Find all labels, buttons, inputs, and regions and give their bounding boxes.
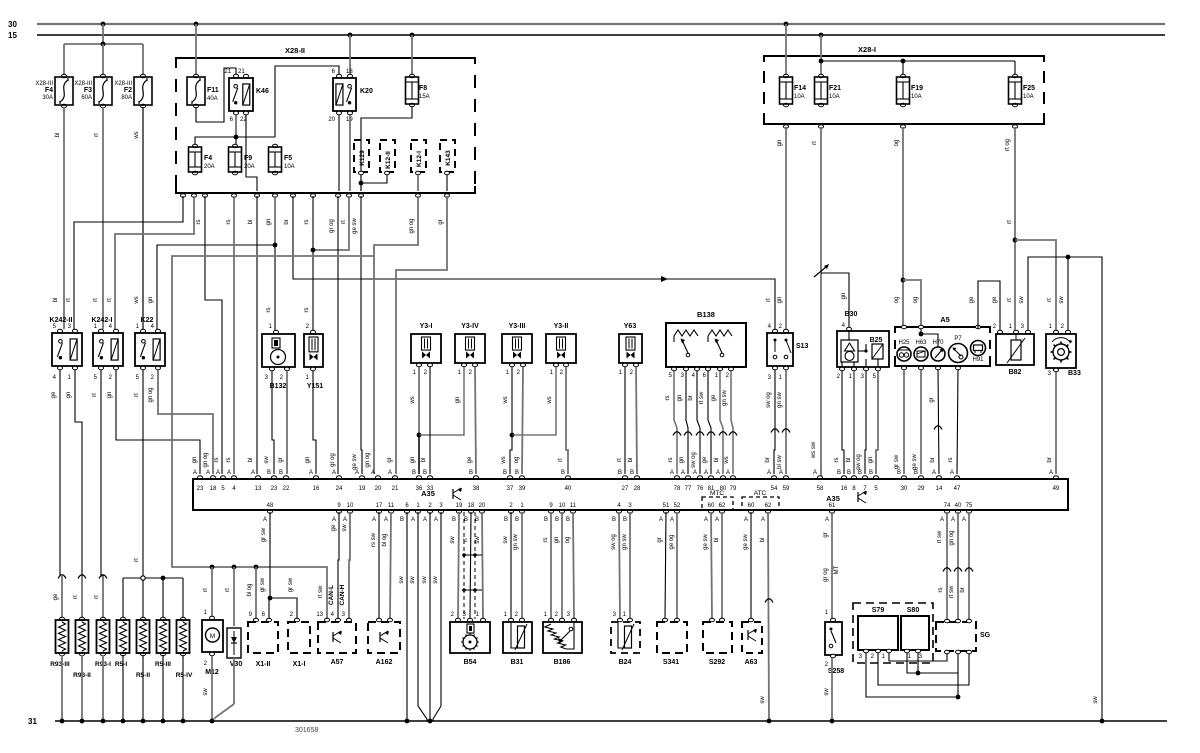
svg-text:37: 37 (507, 486, 514, 492)
svg-text:15A: 15A (419, 94, 430, 100)
svg-text:rs sw: rs sw (371, 532, 377, 547)
wire rt from X28-II terminal to K242-II pin3 (74, 196, 183, 329)
fuse F4 30A (X28-III) (62, 74, 67, 78)
wire P7 to A35 A47 (957, 370, 958, 474)
svg-text:F4: F4 (204, 155, 212, 162)
svg-text:sw: sw (342, 524, 348, 532)
svg-text:B: B (837, 470, 841, 476)
wire S13 pin3 to A35 A54 (774, 370, 775, 474)
svg-text:14: 14 (936, 486, 943, 492)
wire Y63 pin2 to A35 B28 (636, 367, 637, 474)
svg-text:81: 81 (708, 486, 715, 492)
svg-text:B: B (623, 517, 627, 523)
valve Y151 (311, 330, 316, 334)
svg-text:K12-II: K12-II (385, 151, 392, 169)
fuse F2 80A (X28-III) (141, 74, 146, 78)
svg-text:SG: SG (980, 632, 991, 639)
svg-text:sw og: sw og (611, 534, 617, 550)
wire gn X28-II terminal to K22 pin4 and B132 (274, 196, 276, 245)
svg-text:ge sw: ge sw (352, 218, 358, 234)
svg-text:A: A (411, 517, 415, 523)
svg-text:ge: ge (53, 593, 59, 600)
svg-text:gn sw: gn sw (513, 534, 519, 550)
svg-text:F8: F8 (419, 85, 427, 92)
fuse F3 60A (X28-III) (101, 74, 106, 78)
svg-text:A57: A57 (331, 659, 344, 666)
wire B82 pin2 to H91 (978, 281, 1000, 330)
wire sw B82 pin3 / B33 pin2 to ground rail (1028, 257, 1102, 721)
svg-text:A: A (216, 470, 220, 476)
svg-text:gn: gn (266, 219, 272, 226)
svg-text:18: 18 (210, 486, 217, 492)
svg-text:sw: sw (422, 576, 428, 584)
svg-text:78: 78 (674, 486, 681, 492)
svg-text:A5: A5 (940, 315, 950, 324)
svg-text:A: A (332, 517, 336, 523)
wire og F19 to A5 cluster (902, 127, 904, 327)
svg-text:sw og: sw og (856, 454, 862, 470)
svg-text:og: og (514, 457, 520, 464)
MTC dashed bracket (702, 497, 733, 510)
wire Y151 pin1 to A35 A16 (313, 371, 316, 474)
svg-text:B25: B25 (870, 337, 883, 344)
svg-text:B: B (858, 470, 862, 476)
wires A51 A52 to S341 (665, 512, 666, 619)
svg-text:br: br (1047, 457, 1053, 462)
sensor B54 (456, 618, 461, 622)
svg-text:A: A (767, 470, 771, 476)
svg-text:A: A (309, 470, 313, 476)
wire gn og K12-I terminal to A35 A20 (374, 196, 418, 474)
svg-text:30: 30 (8, 20, 17, 29)
svg-text:ATC: ATC (754, 490, 767, 497)
svg-text:36: 36 (416, 486, 423, 492)
svg-text:gn og: gn og (365, 452, 371, 467)
svg-text:49: 49 (1053, 486, 1060, 492)
wire A17 to A162 (378, 512, 380, 619)
svg-text:gn og: gn og (409, 218, 415, 233)
svg-text:A: A (761, 517, 765, 523)
svg-text:B30: B30 (845, 311, 858, 318)
speed sensor B33 (1054, 330, 1059, 334)
wire Y3-III pin1 / Y3-II pin1 to A35 B37 (511, 367, 513, 435)
svg-text:gr og: gr og (823, 568, 829, 582)
wire K22 pin5 to R5 resistor bank (142, 370, 144, 578)
wire A48 to X1-II pin6 and X1-I pin2 (269, 512, 271, 598)
svg-text:rs: rs (834, 458, 840, 463)
svg-text:80: 80 (720, 486, 727, 492)
svg-text:A: A (962, 517, 966, 523)
svg-text:rt: rt (107, 298, 113, 302)
svg-text:sw: sw (1093, 696, 1099, 704)
svg-text:15: 15 (8, 31, 17, 40)
horn H91 (971, 341, 986, 356)
svg-text:21: 21 (224, 69, 231, 75)
svg-text:bl og: bl og (382, 533, 388, 546)
svg-text:rt: rt (766, 298, 772, 302)
svg-text:F5: F5 (284, 155, 292, 162)
svg-text:rs: rs (214, 458, 220, 463)
svg-text:sw: sw (1059, 296, 1065, 304)
svg-text:13: 13 (255, 486, 262, 492)
wire ATC A62 to ground rail (768, 512, 769, 721)
svg-text:bl: bl (55, 133, 61, 138)
glow plug resistor R93-II (78, 575, 86, 579)
svg-text:rt: rt (1007, 220, 1013, 224)
svg-text:ws: ws (547, 396, 553, 404)
svg-text:F4: F4 (45, 87, 53, 94)
svg-text:23: 23 (197, 486, 204, 492)
svg-text:10A: 10A (829, 94, 840, 100)
svg-text:gr og: gr og (330, 453, 336, 467)
svg-text:rs: rs (543, 538, 549, 543)
fuse F8 15A (410, 74, 415, 78)
wire K242-II pin4 to R93-III (59, 370, 61, 576)
svg-text:gn sw: gn sw (777, 392, 783, 408)
svg-text:sw: sw (203, 688, 209, 696)
svg-text:ge: ge (711, 394, 717, 401)
wire A61 to S258 (831, 512, 833, 619)
wire rs X28-II terminal to A35 A5 (205, 196, 222, 474)
svg-text:gn og: gn og (949, 530, 955, 545)
svg-text:ge: ge (969, 296, 975, 303)
A5 bottom pins (902, 366, 907, 370)
svg-text:21: 21 (392, 486, 399, 492)
sensor B31 (509, 618, 514, 622)
wire A11 to A162 (390, 512, 391, 619)
svg-text:og: og (913, 297, 919, 304)
svg-text:58: 58 (817, 486, 824, 492)
svg-text:rs: rs (196, 220, 202, 225)
svg-text:33: 33 (427, 486, 434, 492)
svg-text:A: A (693, 470, 697, 476)
svg-text:S341: S341 (663, 659, 679, 666)
svg-text:rt: rt (1047, 298, 1053, 302)
svg-text:ge sw: ge sw (743, 534, 749, 550)
svg-text:Y151: Y151 (307, 383, 323, 390)
svg-text:gr: gr (438, 219, 444, 224)
svg-text:P7: P7 (954, 336, 962, 342)
svg-text:B: B (267, 470, 271, 476)
svg-text:75: 75 (966, 503, 973, 509)
svg-text:bl: bl (846, 458, 852, 463)
svg-text:47: 47 (954, 486, 961, 492)
wire H63 to A35 B29 (920, 370, 922, 474)
svg-text:og: og (894, 297, 900, 304)
svg-text:76: 76 (697, 486, 704, 492)
wires B9 B10 B11 to B186 (550, 512, 552, 619)
svg-text:ge: ge (331, 524, 337, 531)
resistor R5-III (161, 617, 166, 621)
temperature sensor B82 (998, 330, 1003, 334)
svg-text:K242-I: K242-I (91, 317, 112, 324)
svg-text:gr: gr (657, 537, 663, 542)
svg-text:gr sw: gr sw (288, 577, 294, 592)
svg-text:ge: ge (702, 456, 708, 463)
svg-text:gr og: gr og (329, 219, 335, 233)
svg-text:A: A (704, 470, 708, 476)
wire br X28-II terminal to S13 pin4 (long run) (293, 196, 775, 329)
svg-text:sw: sw (264, 456, 270, 464)
svg-text:gn sw: gn sw (622, 534, 628, 550)
sensor B132 (274, 330, 279, 334)
svg-text:bl: bl (628, 458, 634, 463)
fuse feed bus inside X28-II (195, 137, 275, 147)
relay K46 (234, 74, 239, 78)
svg-text:A: A (206, 470, 210, 476)
svg-text:A: A (372, 517, 376, 523)
svg-text:20: 20 (328, 117, 335, 123)
svg-text:ge: ge (467, 456, 473, 463)
svg-text:A: A (951, 517, 955, 523)
svg-text:br: br (688, 395, 694, 400)
svg-text:rs: rs (226, 220, 232, 225)
wire rs X28-II terminal to A35 A4 (233, 196, 235, 474)
svg-text:ws: ws (134, 131, 140, 139)
svg-text:F14: F14 (794, 85, 806, 92)
wire rail 31 (ground) (55, 720, 1167, 722)
wire Y63 pin1 to A35 B27 (624, 367, 626, 474)
svg-text:rs: rs (938, 588, 944, 593)
svg-text:rt: rt (558, 458, 564, 462)
svg-text:rt: rt (93, 298, 99, 302)
svg-text:B: B (469, 470, 473, 476)
svg-text:rt sw: rt sw (949, 585, 955, 598)
svg-text:A: A (332, 470, 336, 476)
svg-text:B186: B186 (554, 659, 571, 666)
svg-text:ws: ws (724, 456, 730, 464)
svg-text:gr: gr (929, 397, 935, 402)
svg-text:rt sw: rt sw (318, 585, 324, 598)
wire K242-I pin5 to R93-I (100, 370, 102, 576)
svg-text:A: A (423, 517, 427, 523)
wire rt X28-II terminal to Y151 feed (313, 196, 349, 250)
svg-text:S80: S80 (907, 607, 920, 614)
svg-text:ws: ws (410, 396, 416, 404)
wire rail30 to F14 (784, 22, 789, 27)
svg-text:B: B (914, 470, 918, 476)
svg-text:M: M (210, 633, 215, 640)
svg-text:gr sw: gr sw (894, 454, 900, 469)
svg-text:gn: gn (192, 457, 198, 464)
svg-text:22: 22 (283, 486, 290, 492)
svg-text:B: B (452, 517, 456, 523)
svg-text:K22: K22 (141, 317, 154, 324)
svg-text:74: 74 (944, 503, 951, 509)
wire B132 pin3 to A35 B23 (272, 371, 274, 474)
svg-text:gn: gn (841, 293, 847, 300)
relay connector K143 (dashed) (440, 140, 455, 172)
svg-text:F25: F25 (1023, 85, 1035, 92)
svg-text:54: 54 (771, 486, 778, 492)
svg-text:B: B (515, 470, 519, 476)
svg-text:rt: rt (1007, 298, 1013, 302)
svg-text:77: 77 (685, 486, 692, 492)
wire S13 pin1 to A35 A59 (785, 370, 787, 474)
svg-text:30A: 30A (42, 95, 53, 101)
svg-text:rt: rt (94, 595, 100, 599)
svg-text:S79: S79 (872, 607, 885, 614)
svg-text:B: B (618, 470, 622, 476)
K-line arrow symbol left (452, 489, 454, 499)
X28-I bottom terminals (784, 125, 789, 129)
wire K46 pin6 to fuse bus (235, 115, 237, 137)
ECU A35 connector strip (193, 479, 1068, 510)
svg-text:gn: gn (677, 395, 683, 402)
svg-text:sw: sw (433, 576, 439, 584)
wire branch to bottom-left bus (M12/V30) (172, 256, 374, 620)
svg-text:gn: gn (554, 537, 560, 544)
svg-text:bl: bl (248, 458, 254, 463)
wire K20 pin19 to terminal (349, 115, 351, 191)
svg-text:K12-I: K12-I (416, 151, 423, 167)
svg-text:B138: B138 (697, 310, 715, 319)
wire bl X28-II terminal to A35 A13 (256, 196, 258, 474)
svg-text:rs: rs (226, 458, 232, 463)
wire rt F21 down with tap (820, 127, 822, 478)
svg-text:10A: 10A (911, 94, 922, 100)
svg-text:ge: ge (51, 391, 57, 398)
svg-text:A: A (779, 470, 783, 476)
svg-text:gr: gr (823, 532, 829, 537)
svg-text:gr sw: gr sw (261, 527, 267, 542)
svg-text:62: 62 (719, 503, 726, 509)
svg-text:bl: bl (760, 538, 766, 543)
svg-text:R5-I: R5-I (115, 661, 127, 668)
svg-text:52: 52 (674, 503, 681, 509)
fuse F21 10A (819, 74, 824, 78)
wire X1-II pin9 from bus (255, 567, 257, 619)
wire rs from X28-II terminal to K242-I pin4 (115, 196, 194, 329)
ATC dashed bracket (742, 497, 779, 510)
svg-text:rt: rt (812, 141, 818, 145)
svg-text:10: 10 (347, 503, 354, 509)
resistor R5-II (141, 617, 146, 621)
svg-text:A: A (716, 470, 720, 476)
relay K20 (337, 74, 342, 78)
svg-text:B54: B54 (464, 659, 477, 666)
svg-text:A: A (355, 470, 359, 476)
svg-text:60A: 60A (81, 95, 92, 101)
wires B25 to A35 B16 B8 B7 B5 (842, 371, 844, 474)
svg-text:A: A (193, 470, 197, 476)
svg-text:B: B (897, 470, 901, 476)
svg-text:B: B (847, 470, 851, 476)
A35 strip edges (193, 478, 1068, 480)
svg-text:rt og: rt og (1005, 139, 1011, 151)
svg-text:rt sw: rt sw (699, 391, 705, 404)
wires B2 B1 to B31 (510, 512, 512, 619)
svg-text:80A: 80A (121, 95, 132, 101)
A35 bottom pin terminals (268, 510, 273, 514)
wire K20 pin20 to terminal (338, 115, 340, 191)
wire K20 pin6 feed (275, 66, 339, 137)
svg-text:B33: B33 (1068, 370, 1081, 377)
resistor R5-I (121, 617, 126, 621)
svg-text:20: 20 (479, 503, 486, 509)
svg-text:23: 23 (271, 486, 278, 492)
wire K242-I pin2 to A35 A23 (116, 370, 200, 474)
svg-text:Y3-III: Y3-III (509, 323, 526, 330)
svg-text:A: A (681, 470, 685, 476)
X28-II bottom connector terminals (181, 194, 186, 198)
fuse F19 10A (901, 74, 906, 78)
svg-text:A: A (227, 470, 231, 476)
svg-text:ge sw: ge sw (352, 454, 358, 470)
svg-text:H91: H91 (972, 357, 984, 363)
svg-text:S13: S13 (796, 343, 809, 350)
svg-text:B: B (544, 517, 548, 523)
svg-text:A: A (744, 517, 748, 523)
shielded wires B19 B18 B20 to B54 (458, 512, 459, 619)
svg-text:X1-II: X1-II (256, 661, 271, 668)
svg-text:sw: sw (399, 576, 405, 584)
svg-text:A35: A35 (826, 494, 840, 503)
svg-text:S258: S258 (828, 668, 844, 675)
svg-text:sw og: sw og (691, 452, 697, 468)
svg-text:CAN-L: CAN-L (328, 585, 335, 605)
svg-text:rt: rt (617, 458, 623, 462)
svg-text:10A: 10A (284, 164, 295, 170)
svg-text:gn: gn (777, 297, 783, 304)
svg-text:rt: rt (66, 298, 72, 302)
K-line arrow symbol right (857, 492, 859, 502)
svg-text:A: A (704, 517, 708, 523)
svg-text:A: A (384, 517, 388, 523)
svg-text:30: 30 (901, 486, 908, 492)
fuse F4 20A (193, 144, 198, 148)
svg-text:B31: B31 (511, 659, 524, 666)
connector X1-II (dashed) (254, 618, 259, 622)
svg-text:B82: B82 (1009, 369, 1022, 376)
B25 bottom pins (840, 367, 845, 371)
switch S258 (831, 618, 836, 622)
svg-text:bl: bl (714, 538, 720, 543)
wire Y3-III pin2 to A35 B39 (522, 367, 523, 474)
svg-text:F19: F19 (911, 85, 923, 92)
svg-text:gn og: gn og (203, 452, 209, 467)
svg-text:og: og (894, 140, 900, 147)
svg-text:ge sw: ge sw (912, 454, 918, 470)
svg-text:A: A (434, 517, 438, 523)
svg-text:X28-II: X28-II (285, 46, 305, 55)
svg-text:rt: rt (203, 588, 209, 592)
svg-text:CAN-H: CAN-H (339, 584, 346, 605)
switch unit S79/S80 outer dashed box (853, 603, 933, 663)
svg-text:K242-II: K242-II (50, 317, 73, 324)
svg-text:bl og: bl og (247, 583, 253, 596)
svg-text:R93-III: R93-III (50, 661, 70, 668)
fuse F9 20A (235, 137, 237, 146)
svg-text:sw: sw (824, 688, 830, 696)
svg-text:Y3-IV: Y3-IV (461, 323, 479, 330)
fuse F25 10A (1013, 74, 1018, 78)
glow plug resistor R93-I (99, 575, 107, 579)
switch S13 (773, 329, 778, 333)
svg-text:28: 28 (634, 486, 641, 492)
svg-text:ws: ws (501, 456, 507, 464)
wire K242-II pin1 to R93-II (75, 370, 82, 576)
svg-text:A63: A63 (745, 659, 758, 666)
svg-text:24: 24 (336, 486, 343, 492)
svg-text:B: B (279, 470, 283, 476)
control unit A162 (dashed) (377, 618, 382, 622)
wire F8 to terminal (361, 106, 412, 191)
svg-text:61: 61 (829, 503, 836, 509)
wire Y3-IV pin2 to A35 B38 (475, 367, 476, 474)
svg-text:301658: 301658 (295, 727, 318, 734)
svg-text:A: A (659, 517, 663, 523)
